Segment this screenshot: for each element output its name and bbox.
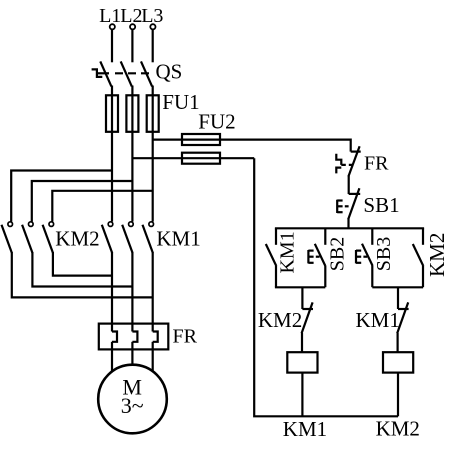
terminal circle L3 xyxy=(150,24,155,29)
wire L1 drop to QS xyxy=(111,30,113,63)
svg-text:FU1: FU1 xyxy=(162,90,199,114)
relay FR NC contact tick xyxy=(351,151,361,153)
wire KM2 interlock to coil KM1 xyxy=(301,333,303,352)
svg-text:KM2: KM2 xyxy=(55,226,99,250)
svg-text:FR: FR xyxy=(364,153,389,175)
wire QS to FU1 pole 1 xyxy=(111,86,113,97)
button SB2 NO contact xyxy=(324,228,326,245)
button SB2 actuator E xyxy=(307,250,309,263)
wire phase A through FU1 down to KM contact xyxy=(111,95,113,221)
wire KM2 contact2 bottom crossover to phase B xyxy=(32,252,132,287)
fuse FU1 pole 1 xyxy=(106,95,118,132)
svg-text:L1: L1 xyxy=(99,5,121,27)
wire L3 tap to FU2 upper and on to FR xyxy=(153,139,351,141)
fuse FU2 lower xyxy=(182,153,220,164)
contactor KM1 main contact 1 xyxy=(108,222,113,227)
terminal circle L2 xyxy=(130,24,135,29)
wire FR to motor phase A xyxy=(111,342,113,372)
wire coil KM2 to bottom rail xyxy=(397,373,399,417)
wire FU2 upper output corner down to FR contact xyxy=(350,139,352,152)
svg-text:FU2: FU2 xyxy=(198,110,235,134)
motor M circle xyxy=(98,365,167,434)
wire FR to motor phase C xyxy=(152,342,154,372)
svg-text:SB1: SB1 xyxy=(363,193,399,217)
contactor KM1 main contact 2 xyxy=(129,222,134,227)
wire FR to motor phase B xyxy=(131,342,133,365)
thermal relay FR heater box xyxy=(99,324,169,350)
contactor KM2 main contact 1 xyxy=(8,222,13,227)
wire L2 drop to QS xyxy=(131,30,133,63)
button SB3 actuator E xyxy=(355,250,357,263)
fuse FU1 pole 2 xyxy=(126,95,138,132)
contactor KM2 aux NO contact (self-hold) xyxy=(422,228,424,245)
button SB1 actuator E xyxy=(336,200,338,213)
svg-text:KM2: KM2 xyxy=(376,417,420,441)
wire phase B through FU1 down to KM contact xyxy=(131,95,133,221)
FR heater element phase B xyxy=(132,332,137,342)
FR heater element phase A xyxy=(112,332,117,342)
svg-text:KM2: KM2 xyxy=(425,233,449,277)
switch QS blade pole 2 xyxy=(121,61,132,86)
coil KM1 xyxy=(287,352,317,372)
svg-text:SB3: SB3 xyxy=(373,237,395,271)
svg-text:QS: QS xyxy=(156,60,183,84)
wire phase C KM1 bottom to FR xyxy=(152,252,154,332)
wire phase A KM1 bottom to FR xyxy=(111,252,113,332)
contactor KM2 NC interlock blade xyxy=(302,302,313,333)
wire QS to FU1 pole 3 xyxy=(152,86,154,97)
wire branch L3 to KM2 contact 3 xyxy=(52,191,152,222)
wire coil KM1 to bottom rail xyxy=(301,373,303,417)
contactor KM2 main contact 3 xyxy=(49,222,54,227)
svg-text:KM2: KM2 xyxy=(258,308,302,332)
contactor KM1 aux NO contact (self-hold) xyxy=(275,228,277,245)
switch QS blade pole 1 xyxy=(100,61,111,86)
wire QS to FU1 pole 2 xyxy=(131,86,133,97)
wire right branch box bottom xyxy=(372,286,423,288)
wire right box to KM1 interlock xyxy=(397,287,399,309)
wire left branch box bottom xyxy=(275,286,325,288)
wire phase B KM1 bottom to FR xyxy=(131,252,133,332)
wire phase C through FU1 down to KM contact xyxy=(152,95,154,221)
relay FR actuator (thermal) xyxy=(336,154,341,165)
svg-text:3~: 3~ xyxy=(121,393,144,418)
button SB1 NC blade xyxy=(348,188,359,219)
button SB1 NC tick xyxy=(349,193,361,195)
svg-text:KM1: KM1 xyxy=(277,231,299,273)
wire KM2 contact1 bottom crossover to phase C xyxy=(12,252,153,297)
fuse FU1 pole 3 xyxy=(147,95,159,132)
contactor KM1 NC interlock tick xyxy=(398,308,409,310)
switch QS blade pole 3 xyxy=(141,61,152,86)
switch QS linkage (dashed) xyxy=(97,72,109,74)
wire FU2 lower output return line xyxy=(254,158,398,416)
svg-text:FR: FR xyxy=(173,325,198,347)
wire L3 drop to QS xyxy=(152,30,154,63)
fuse FU2 upper xyxy=(182,134,220,145)
wire FR contact to SB1 xyxy=(348,176,350,194)
relay FR NC contact blade xyxy=(348,146,359,176)
svg-text:KM1: KM1 xyxy=(356,308,400,332)
switch QS handle xyxy=(92,69,103,77)
FR heater element phase C xyxy=(153,332,158,342)
wire KM1 interlock to coil KM2 xyxy=(397,333,399,352)
contactor KM2 main contact 2 xyxy=(29,222,34,227)
coil KM2 xyxy=(383,352,413,372)
contactor KM1 NC interlock blade xyxy=(397,302,408,333)
contactor KM1 main contact 3 xyxy=(149,222,154,227)
svg-text:KM1: KM1 xyxy=(283,417,327,441)
wire KM2 contact3 bottom crossover to phase A xyxy=(53,252,112,276)
wire branch L1 to KM2 contact 1 xyxy=(11,171,112,222)
wire branch top rail xyxy=(275,227,424,229)
svg-text:KM1: KM1 xyxy=(156,226,200,250)
wire branch L2 to KM2 contact 2 xyxy=(32,181,133,222)
svg-text:SB2: SB2 xyxy=(327,237,349,271)
wire L2 tap to FU2 lower and on to return rail xyxy=(132,157,254,159)
terminal circle L1 xyxy=(110,24,115,29)
button SB3 NO contact xyxy=(371,228,373,245)
contactor KM2 NC interlock tick xyxy=(302,308,313,310)
wire left box to KM2 interlock xyxy=(301,287,303,309)
wire SB1 to branch rail xyxy=(347,219,349,229)
